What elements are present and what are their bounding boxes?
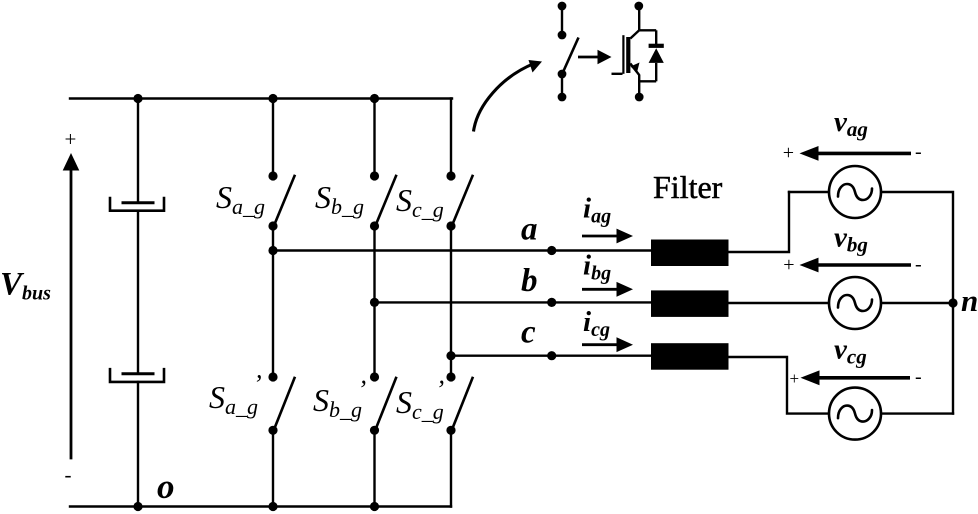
svg-text:’: ’ [253, 370, 262, 399]
svg-text:b: b [521, 263, 538, 299]
svg-text:+: + [783, 254, 794, 276]
svg-text:+: + [65, 127, 77, 151]
svg-text:-: - [915, 141, 922, 163]
svg-text:Filter: Filter [653, 169, 723, 205]
svg-text:c: c [521, 315, 536, 351]
svg-text:-: - [65, 462, 72, 486]
svg-text:+: + [790, 369, 800, 388]
svg-text:n: n [961, 283, 978, 318]
svg-text:-: - [915, 253, 922, 275]
svg-text:-: - [915, 366, 922, 388]
svg-text:o: o [157, 467, 175, 506]
svg-text:+: + [783, 142, 794, 164]
svg-text:’: ’ [358, 375, 367, 404]
svg-text:a: a [521, 212, 538, 248]
svg-text:’: ’ [436, 375, 445, 404]
